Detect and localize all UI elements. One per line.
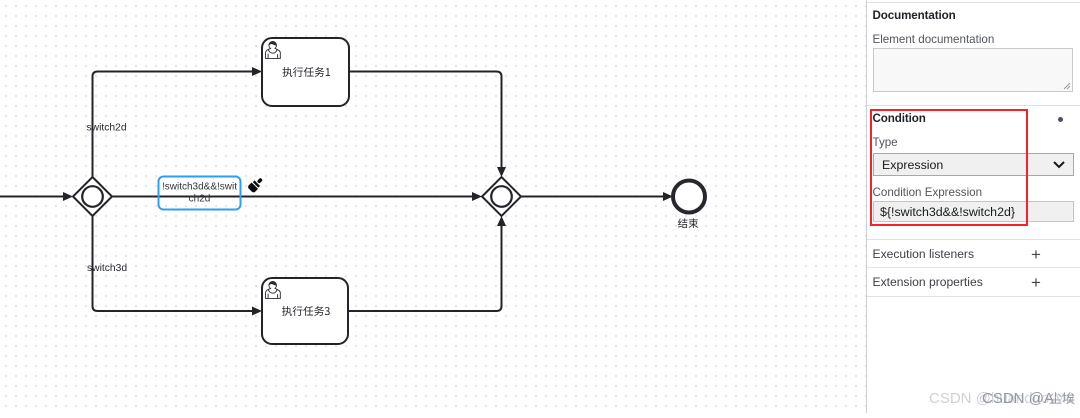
svg-text:switch3d: switch3d (87, 263, 127, 274)
arrowhead into gateway1 (63, 192, 73, 201)
task1 label 执行任务1 (282, 67, 330, 77)
arrowhead into end event (663, 192, 673, 201)
Condition group (873, 112, 926, 125)
wire gateway2 to end event (521, 196, 663, 198)
wire task3 to gateway2 (348, 226, 502, 311)
edited-dot indicator (1058, 117, 1063, 122)
inclusive gateway 1 (73, 177, 112, 216)
inclusive gateway 2 (482, 177, 521, 216)
selected flow label box (blue) (159, 177, 241, 210)
svg-text:ch2d: ch2d (189, 194, 211, 205)
arrowhead into gateway2 from left (472, 192, 482, 201)
arrowhead into gateway2 from bottom (497, 216, 506, 226)
wire incoming from left edge (0, 196, 63, 198)
wire gateway1 right to gateway2 left (condition branch) (112, 196, 472, 198)
user icon task3 (266, 281, 281, 298)
properties panel (866, 0, 1080, 413)
wire task1 to gateway2 (349, 72, 502, 168)
Extension properties group (873, 275, 983, 289)
svg-text:switch2d: switch2d (87, 123, 127, 134)
watermark CJK 尘埃 (1050, 392, 1075, 404)
user task 1 (执行任务1) (262, 38, 349, 106)
arrowhead into task1 (252, 67, 262, 76)
red highlight rectangle (870, 109, 1028, 226)
BPMN canvas (0, 0, 866, 413)
end event label 结束 (678, 218, 698, 228)
wire gateway1 bottom to task3 (switch3d branch) (93, 216, 253, 311)
paintbrush cursor icon (247, 176, 265, 194)
user task 3 (执行任务3) (262, 278, 348, 344)
task3 label 执行任务3 (282, 306, 330, 316)
Documentation group (873, 9, 956, 22)
arrowhead into gateway2 from top (497, 167, 506, 177)
arrowhead into task3 (252, 307, 262, 316)
Execution listeners group (873, 247, 975, 261)
wire gateway1 top to task1 (switch2d branch) (93, 72, 253, 178)
user icon task1 (266, 41, 281, 58)
end event 结束 (673, 181, 705, 213)
svg-text:!switch3d&&!swit: !switch3d&&!swit (162, 182, 237, 193)
